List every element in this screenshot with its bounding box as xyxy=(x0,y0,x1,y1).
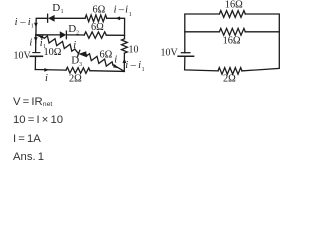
wire bottom + current arrow i (rightward) xyxy=(35,69,66,72)
svg-text:10V: 10V xyxy=(14,50,32,61)
svg-text:3: 3 xyxy=(79,62,82,68)
diode D3 (pointing up-left toward T2) xyxy=(75,49,87,57)
resistor 6ohm second row xyxy=(84,32,106,38)
resistor 2ohm bottom right circuit xyxy=(218,68,242,75)
svg-text:Ans. 1: Ans. 1 xyxy=(13,151,44,163)
svg-text:V = IR: V = IR xyxy=(13,96,43,108)
svg-text:D: D xyxy=(71,54,79,66)
svg-text:16Ω: 16Ω xyxy=(223,35,241,46)
wire second row right segment xyxy=(106,34,124,36)
current arrow i-i1 on left vertical (down) xyxy=(34,23,38,28)
svg-text:i: i xyxy=(125,60,128,71)
wire right circuit bottom-left xyxy=(185,56,218,71)
wire right circuit right side xyxy=(242,14,279,71)
wire middle row right circuit xyxy=(185,31,220,33)
svg-text:D: D xyxy=(52,2,60,14)
resistor 6ohm top xyxy=(85,15,107,22)
resistor 2ohm bottom xyxy=(66,67,90,73)
svg-text:i: i xyxy=(114,55,117,66)
wire second row left segment xyxy=(36,34,60,36)
svg-text:I = 1A: I = 1A xyxy=(13,133,41,145)
svg-text:1: 1 xyxy=(129,12,132,18)
diode D1 xyxy=(48,14,86,22)
svg-text:net: net xyxy=(43,101,53,108)
svg-text:6Ω: 6Ω xyxy=(100,49,113,60)
wire left vertical + top-left corner xyxy=(36,18,48,52)
svg-text:i: i xyxy=(73,40,76,51)
svg-text:i: i xyxy=(45,73,48,84)
resistor 16ohm top xyxy=(219,11,245,18)
svg-text:10Ω: 10Ω xyxy=(44,47,62,58)
diode D2 xyxy=(60,31,84,39)
resistor 10ohm (diagonal) xyxy=(45,36,75,51)
battery 10V right circuit xyxy=(181,52,190,54)
svg-text:10: 10 xyxy=(129,45,139,56)
svg-text:1: 1 xyxy=(31,24,34,30)
svg-text:10V: 10V xyxy=(161,47,179,58)
svg-text:1: 1 xyxy=(142,67,145,73)
svg-text:10 = I × 10: 10 = I × 10 xyxy=(13,114,63,126)
resistor 6ohm (diagonal) xyxy=(87,54,113,66)
svg-text:1: 1 xyxy=(61,9,64,15)
svg-text:–: – xyxy=(118,5,125,16)
resistor 16ohm middle xyxy=(219,28,245,35)
wire right circuit left vertical + top xyxy=(185,14,220,53)
svg-text:i: i xyxy=(29,37,32,48)
svg-text:2: 2 xyxy=(76,31,79,37)
wire diagonal start + current arrow i1 (up-left toward T2) xyxy=(36,35,45,38)
wire left vertical below T2 + current arrow i (down) xyxy=(35,35,37,43)
current arrow i-i1 on top wire (leftward) xyxy=(115,16,120,20)
svg-text:D: D xyxy=(68,23,76,35)
svg-text:6Ω: 6Ω xyxy=(91,22,104,33)
svg-text:i: i xyxy=(125,5,128,16)
wire right vertical lower + current arrow i-i1 (up) xyxy=(123,53,125,71)
wire top-right segment xyxy=(107,18,125,39)
resistor 10ohm right vertical xyxy=(122,39,128,53)
svg-text:6Ω: 6Ω xyxy=(93,4,106,15)
svg-text:–: – xyxy=(130,60,137,71)
svg-text:16Ω: 16Ω xyxy=(225,0,243,11)
svg-text:–: – xyxy=(19,17,26,28)
svg-text:i: i xyxy=(114,5,117,16)
svg-text:i: i xyxy=(15,17,18,28)
svg-text:2Ω: 2Ω xyxy=(69,74,82,85)
svg-text:2Ω: 2Ω xyxy=(223,74,236,85)
wire diagonal end + current arrow toward node B xyxy=(113,65,124,72)
battery 10V left circuit xyxy=(33,52,40,54)
